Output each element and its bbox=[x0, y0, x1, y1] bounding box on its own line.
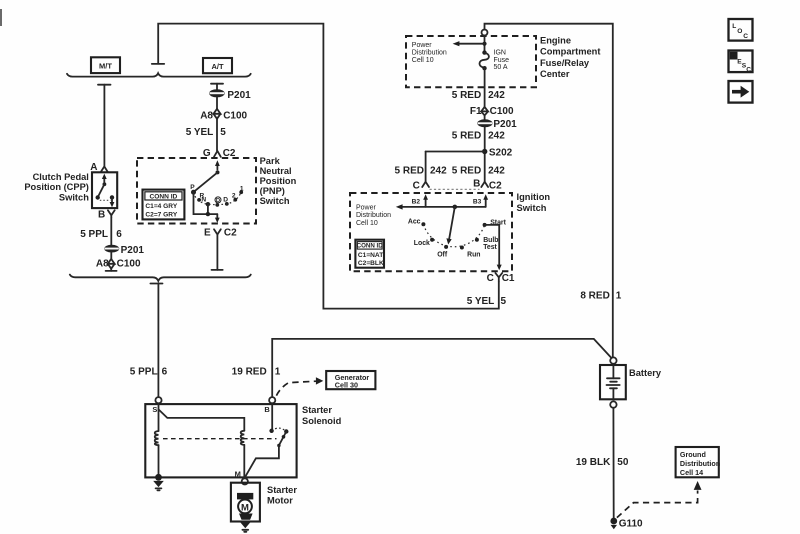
node: PNP contact 2 bbox=[232, 193, 237, 202]
connector C100 pin A8 (A/T branch) bbox=[200, 109, 247, 122]
label: Engine Compartment Fuse/Relay Center bbox=[540, 36, 600, 79]
node: ignition contact Acc bbox=[408, 219, 426, 227]
svg-text:D: D bbox=[731, 54, 736, 61]
svg-text:Position (CPP): Position (CPP) bbox=[24, 182, 89, 192]
relay: Starter Solenoid box bbox=[145, 404, 296, 477]
battery: terminal circles and box bbox=[600, 357, 626, 407]
wire: plunger dashed line bbox=[163, 438, 277, 440]
svg-text:Switch: Switch bbox=[517, 203, 547, 213]
svg-text:P201: P201 bbox=[493, 119, 517, 130]
switch contact arrow (CPP) bbox=[96, 174, 115, 208]
terminal: solenoid B circle bbox=[264, 397, 275, 414]
svg-text:(PNP): (PNP) bbox=[260, 186, 285, 196]
node: PNP contact P bbox=[190, 184, 196, 195]
svg-text:5 PPL: 5 PPL bbox=[130, 367, 158, 378]
wire: PNP pin E down to bus 2 bbox=[212, 235, 223, 270]
wire: M/T branch drop from bus 1 bbox=[98, 85, 111, 166]
svg-text:Acc: Acc bbox=[408, 219, 421, 226]
switch: Park Neutral Position (PNP) switch dashed box bbox=[137, 158, 256, 224]
grommet P201 (A/T branch) bbox=[209, 89, 251, 101]
svg-text:C1=NAT: C1=NAT bbox=[358, 252, 383, 259]
wire: PNP wiper arm to P contact bbox=[194, 172, 218, 192]
wire: A/T branch P201 to C100 bbox=[216, 97, 218, 108]
svg-text:B2: B2 bbox=[412, 199, 421, 206]
svg-text:M: M bbox=[241, 502, 249, 513]
terminal: solenoid M circle bbox=[235, 470, 248, 485]
svg-text:C2=BLK: C2=BLK bbox=[358, 260, 384, 267]
svg-text:C2: C2 bbox=[224, 228, 237, 239]
wire: 5 RED 242 from fuse to C100 bbox=[452, 68, 505, 107]
wire: Start contact to pin C output with down arrow bbox=[485, 225, 502, 270]
svg-text:C: C bbox=[413, 181, 420, 192]
node: PNP contact R bbox=[197, 192, 204, 201]
connector pin A at CPP switch bbox=[90, 162, 107, 173]
svg-text:CONN ID: CONN ID bbox=[357, 243, 384, 250]
box: Engine Compartment Fuse/Relay Center dashed bbox=[406, 36, 536, 87]
svg-text:Distribution: Distribution bbox=[680, 459, 720, 468]
svg-text:19 BLK: 19 BLK bbox=[576, 457, 611, 468]
svg-text:D: D bbox=[223, 196, 228, 203]
svg-text:B: B bbox=[473, 179, 480, 190]
svg-text:A/T: A/T bbox=[211, 62, 224, 71]
connector pin B at CPP switch bbox=[98, 210, 115, 221]
svg-text:B3: B3 bbox=[473, 199, 482, 206]
wire: dashed reference arrow to Generator Cell 30 bbox=[276, 377, 323, 395]
switch: CPP switch S1 box bbox=[92, 172, 117, 208]
svg-text:D: D bbox=[216, 198, 220, 204]
svg-text:Solenoid: Solenoid bbox=[302, 416, 342, 426]
svg-text:5 YEL: 5 YEL bbox=[186, 127, 214, 138]
connector C2 pin G at PNP switch bbox=[203, 148, 236, 159]
wire: 5 PPL 6 from CPP switch to P201 bbox=[80, 218, 122, 245]
wire: branch from S202 to ignition pin C (5 RED 242) bbox=[395, 152, 485, 182]
wire: ignition feed rail B2-B3 with left arrow bbox=[396, 204, 486, 209]
svg-text:6: 6 bbox=[162, 367, 168, 378]
battery: cell plates bbox=[607, 365, 620, 399]
svg-text:Position: Position bbox=[260, 176, 297, 186]
node: PNP contact 1 bbox=[239, 186, 244, 194]
grommet P201 (ignition feed) bbox=[477, 115, 517, 130]
svg-text:Off: Off bbox=[437, 251, 448, 258]
svg-text:Switch: Switch bbox=[59, 192, 89, 202]
ground: G110 bbox=[610, 518, 643, 530]
node: splice S202 bbox=[482, 147, 513, 158]
svg-text:Clutch Pedal: Clutch Pedal bbox=[33, 172, 89, 182]
svg-text:M/T: M/T bbox=[99, 62, 112, 71]
svg-text:IGN: IGN bbox=[494, 50, 506, 57]
svg-text:M: M bbox=[235, 470, 241, 479]
wire: dotted arc of PNP contacts bbox=[194, 192, 242, 205]
svg-text:5 RED: 5 RED bbox=[452, 166, 481, 177]
label: Starter Solenoid bbox=[302, 405, 342, 426]
svg-text:242: 242 bbox=[430, 166, 447, 177]
svg-text:5 RED: 5 RED bbox=[452, 90, 481, 101]
node: wiper pivot on rail bbox=[453, 205, 458, 210]
node: PNP wiper pivot bbox=[216, 170, 220, 174]
wire: P201 to C100 (M/T branch) bbox=[110, 252, 112, 259]
svg-text:1: 1 bbox=[240, 186, 244, 193]
svg-text:C1=4 GRY: C1=4 GRY bbox=[145, 203, 177, 210]
svg-text:Cell 10: Cell 10 bbox=[356, 220, 378, 227]
wire: riser pin C to rail, label B2 bbox=[412, 194, 428, 207]
svg-text:B: B bbox=[98, 210, 105, 221]
terminal: fuse block feed circle bbox=[482, 30, 488, 36]
wire: T-bar below bus 2 bbox=[130, 284, 168, 398]
node: PNP contact D bbox=[223, 196, 228, 205]
svg-text:Center: Center bbox=[540, 69, 570, 79]
connector: ignition switch pin C bbox=[413, 181, 429, 192]
node: PNP contact D circled bbox=[215, 197, 221, 207]
node: transmission splice bus 1 (brace) bbox=[67, 73, 251, 76]
node: ignition contact Lock bbox=[414, 238, 434, 247]
svg-text:242: 242 bbox=[488, 131, 505, 142]
grommet P201 (M/T branch) bbox=[104, 245, 144, 256]
svg-text:8 RED: 8 RED bbox=[580, 290, 609, 301]
coil: hold-in winding from S to ground bbox=[155, 404, 159, 477]
box M/T bbox=[91, 57, 120, 73]
box: Generator Cell 30 reference bbox=[326, 371, 375, 389]
svg-text:Power: Power bbox=[356, 204, 377, 211]
svg-text:CONN ID: CONN ID bbox=[149, 194, 177, 201]
svg-text:5: 5 bbox=[501, 296, 507, 307]
svg-text:Distribution: Distribution bbox=[412, 50, 447, 57]
svg-text:Fuse/Relay: Fuse/Relay bbox=[540, 58, 590, 68]
svg-text:50 A: 50 A bbox=[494, 64, 508, 71]
wire: C100 to bus 2 (M/T) T-bar bbox=[106, 269, 117, 271]
svg-text:A8: A8 bbox=[96, 259, 109, 270]
motor: armature symbol M bbox=[237, 493, 253, 520]
node: PNP contact N bbox=[201, 197, 210, 207]
wire: A/T branch drop from bus 1 bbox=[211, 84, 223, 90]
node: ignition contact Run bbox=[460, 246, 481, 259]
svg-text:Cell 30: Cell 30 bbox=[335, 380, 358, 389]
wire: 5 RED 242 from P201 to S202 bbox=[452, 127, 505, 181]
terminal: solenoid S circle bbox=[152, 397, 161, 414]
wire: feed into fuse with arrow to Power Distribution bbox=[453, 36, 487, 52]
wire: 5 YEL return loop from ignition C1 up over the top to the transmission bus bbox=[158, 24, 499, 309]
wire: dashed connector face line C to B bbox=[430, 188, 480, 190]
svg-text:Distribution: Distribution bbox=[356, 212, 391, 219]
box: CONN ID table of ignition switch bbox=[355, 240, 384, 268]
coil: pull-in winding from S to M bbox=[159, 409, 245, 477]
connector C1 pin C below ignition switch bbox=[487, 273, 515, 284]
svg-text:242: 242 bbox=[488, 166, 505, 177]
svg-text:Compartment: Compartment bbox=[540, 47, 600, 57]
wire: dotted arc of ignition contacts bbox=[423, 224, 484, 246]
label: Starter Motor bbox=[267, 485, 297, 506]
wire: battery feed from fuse block top to battery (8 RED path) bbox=[485, 24, 622, 358]
label: Park Neutral Position (PNP) Switch bbox=[260, 156, 297, 206]
node: ignition contact Bulb Test bbox=[475, 237, 499, 251]
svg-text:L: L bbox=[732, 23, 736, 30]
svg-text:C2=7 GRY: C2=7 GRY bbox=[145, 211, 177, 218]
svg-text:P201: P201 bbox=[227, 90, 251, 101]
svg-text:5 PPL: 5 PPL bbox=[80, 229, 108, 240]
wire: T-bar terminator above bus 1 bbox=[152, 63, 164, 65]
node: ignition contact Off bbox=[437, 245, 448, 258]
label: Power Distribution Cell 10 (ignition) bbox=[356, 204, 391, 227]
svg-text:Fuse: Fuse bbox=[494, 57, 510, 64]
svg-text:Lock: Lock bbox=[414, 240, 430, 247]
svg-text:Park: Park bbox=[260, 156, 281, 166]
svg-text:19 RED: 19 RED bbox=[232, 366, 267, 377]
box: CONN ID table of PNP switch bbox=[143, 190, 185, 220]
svg-text:S: S bbox=[152, 405, 157, 414]
svg-text:C: C bbox=[487, 273, 494, 284]
svg-text:Power: Power bbox=[412, 42, 433, 49]
svg-text:50: 50 bbox=[617, 457, 629, 468]
svg-text:5 YEL: 5 YEL bbox=[467, 296, 495, 307]
svg-text:Ground: Ground bbox=[680, 450, 706, 459]
wire: PNP P contact down and across to pin E bbox=[194, 192, 220, 223]
wire: dashed reference to Ground Distribution bbox=[617, 481, 702, 518]
svg-text:6: 6 bbox=[116, 229, 122, 240]
svg-text:P: P bbox=[190, 184, 195, 191]
svg-text:Cell 10: Cell 10 bbox=[412, 57, 434, 64]
ground: solenoid winding ground bbox=[153, 474, 164, 491]
svg-text:Neutral: Neutral bbox=[260, 166, 292, 176]
label: Clutch Pedal Position (CPP) Switch bbox=[24, 172, 89, 203]
connector: ignition switch pin B C2 bbox=[473, 179, 502, 192]
svg-text:C100: C100 bbox=[223, 111, 247, 122]
switch: Ignition Switch dashed box bbox=[350, 193, 512, 271]
motor: Starter Motor box bbox=[231, 483, 260, 522]
label: Ignition Switch bbox=[517, 192, 551, 213]
svg-text:A8: A8 bbox=[200, 111, 213, 122]
node: ignition contact Start bbox=[483, 220, 507, 227]
svg-text:C1: C1 bbox=[502, 273, 515, 284]
wire: 19 RED 1 from battery junction down to solenoid B bbox=[232, 339, 611, 397]
svg-text:G110: G110 bbox=[619, 518, 643, 529]
svg-text:E: E bbox=[204, 228, 211, 239]
svg-text:S202: S202 bbox=[489, 147, 513, 158]
svg-text:F1: F1 bbox=[470, 106, 482, 117]
svg-text:C: C bbox=[746, 66, 751, 73]
svg-text:Switch: Switch bbox=[260, 196, 290, 206]
svg-text:Cell 14: Cell 14 bbox=[680, 468, 703, 477]
svg-text:C2: C2 bbox=[489, 181, 502, 192]
wire: 19 BLK 50 from battery to G110 bbox=[576, 408, 629, 518]
svg-text:Ignition: Ignition bbox=[517, 192, 551, 202]
switch: solenoid contacts from B bbox=[245, 403, 288, 477]
connector C100 pin A8 (M/T branch) bbox=[96, 259, 141, 270]
label: 5 RED 242 right branch bbox=[452, 166, 505, 177]
svg-text:Engine: Engine bbox=[540, 36, 571, 46]
svg-text:5 RED: 5 RED bbox=[395, 166, 424, 177]
scan artifact at left edge bbox=[0, 9, 2, 26]
svg-text:O: O bbox=[737, 28, 742, 35]
svg-text:C: C bbox=[743, 33, 748, 40]
connector C100 pin F1 bbox=[470, 106, 514, 117]
wire: riser pin B to rail, label B3 bbox=[473, 194, 488, 207]
svg-text:P201: P201 bbox=[121, 245, 145, 256]
wire: 5 YEL from C100 to PNP switch, label 5 YEL 5 bbox=[186, 119, 227, 151]
box A/T bbox=[203, 58, 232, 73]
svg-text:Starter: Starter bbox=[302, 405, 332, 415]
svg-text:1: 1 bbox=[616, 290, 622, 301]
label: Power Distribution Cell 10 (fuse block) bbox=[412, 42, 447, 64]
connector C2 pin E below PNP switch bbox=[204, 228, 237, 239]
svg-text:Bulb: Bulb bbox=[483, 237, 498, 244]
svg-text:Battery: Battery bbox=[629, 368, 662, 378]
label: 5 YEL 5 on ignition output bbox=[467, 296, 507, 307]
switch contact arrow up at PNP pin G bbox=[215, 160, 220, 169]
ground: starter motor ground bbox=[240, 522, 251, 532]
fuse: IGN Fuse 50 A bbox=[479, 50, 509, 71]
icon: DESC navigation box bbox=[729, 51, 753, 74]
svg-text:Starter: Starter bbox=[267, 485, 297, 495]
svg-text:242: 242 bbox=[488, 90, 505, 101]
svg-text:Run: Run bbox=[467, 251, 480, 258]
icon: LOC navigation box bbox=[729, 19, 753, 41]
switch wiper arrow toward Off bbox=[446, 207, 454, 245]
svg-text:1: 1 bbox=[275, 366, 281, 377]
svg-text:B: B bbox=[264, 405, 270, 414]
icon: next arrow navigation box bbox=[729, 81, 753, 103]
svg-text:Test: Test bbox=[483, 244, 497, 251]
svg-text:C100: C100 bbox=[117, 259, 141, 270]
svg-text:Motor: Motor bbox=[267, 496, 293, 506]
svg-text:C100: C100 bbox=[490, 106, 514, 117]
svg-text:2: 2 bbox=[232, 193, 236, 200]
node: splice bus 2 (brace) bbox=[70, 275, 251, 281]
svg-text:5: 5 bbox=[220, 127, 226, 138]
box: Ground Distribution Cell 14 reference bbox=[676, 447, 721, 477]
svg-text:5 RED: 5 RED bbox=[452, 131, 481, 142]
